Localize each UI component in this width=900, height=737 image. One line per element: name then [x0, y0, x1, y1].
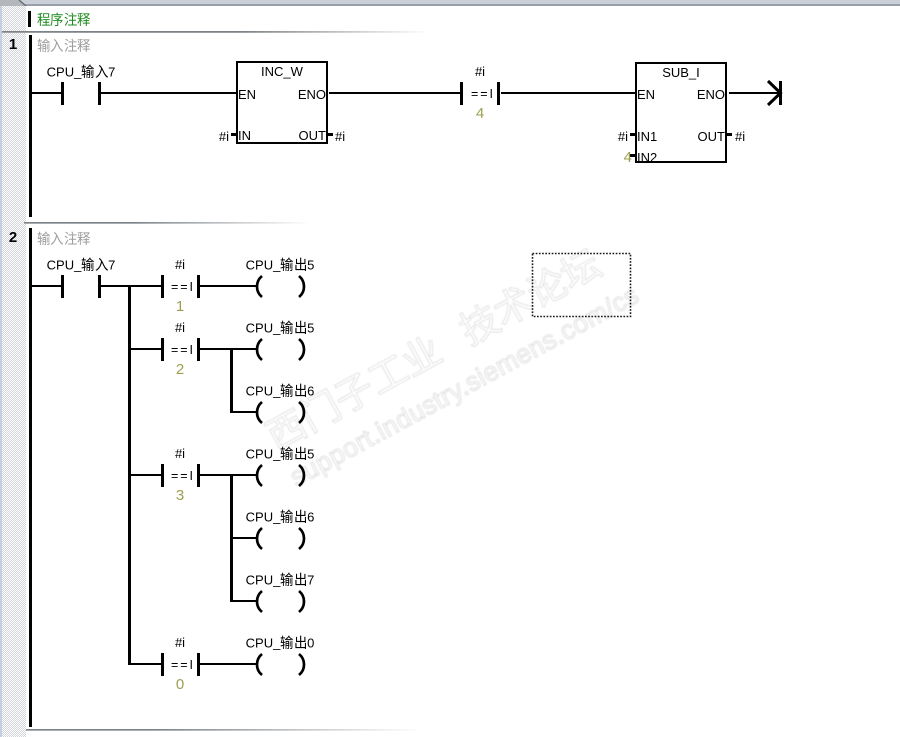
wire comparator to coil row7 — [200, 663, 256, 665]
wire comparator to coil row2 — [200, 348, 256, 350]
coil CPU_输出5 (row1) — [250, 272, 310, 302]
wire comparator to SUB_I — [501, 92, 635, 94]
label CPU_输出7 (row6) — [230, 572, 330, 588]
wire comparator to coil row4 — [200, 474, 256, 476]
branch stub to comparator row7 — [131, 663, 161, 665]
power rail net1 — [29, 35, 32, 217]
wire rail to contact (net1) — [32, 92, 61, 94]
branch stub to comparator row4 — [131, 474, 161, 476]
pin IN2 — [637, 150, 657, 165]
operand #i at OUT — [335, 129, 345, 144]
operand #i at IN1 — [598, 129, 628, 144]
open branch arrow — [766, 78, 788, 108]
pin OUT — [282, 128, 326, 143]
label CPU_输出5 (row1) — [230, 257, 330, 273]
label CPU_输出6 (row3) — [230, 383, 330, 399]
wire contact to INC_W box — [101, 92, 236, 94]
coil CPU_输出6 (row5) — [250, 524, 310, 554]
top toolbar strip — [0, 0, 900, 4]
label CPU_输出5 (row2) — [230, 320, 330, 336]
coil CPU_输出5 (row4) — [250, 461, 310, 491]
title: 程序注释 — [37, 12, 117, 28]
operand #i at IN — [199, 129, 229, 144]
coil CPU_输出7 (row6) — [250, 587, 310, 617]
function block INC_W — [236, 61, 328, 144]
comparator ==I value 0 (row7) — [161, 653, 164, 676]
main branch vertical — [128, 285, 131, 665]
comparator ==I value 2 (row2) — [161, 338, 164, 361]
power rail net2 — [29, 228, 32, 727]
empty selection box (dotted) — [531, 252, 632, 318]
pin EN — [637, 87, 655, 102]
comparator ==I value 3 (row4) — [161, 464, 164, 487]
pin OUT — [681, 129, 725, 144]
IN2 pin tick — [630, 154, 635, 157]
function block SUB_I — [635, 62, 727, 163]
branch stub to comparator row2 — [131, 348, 161, 350]
bottom separator — [26, 729, 426, 730]
label CPU_输出5 (row4) — [230, 446, 330, 462]
watermark line 2: support.industry.siemens.com/cs — [285, 279, 644, 492]
wire comparator to coil row1 — [200, 285, 256, 287]
operand 4 at IN2 — [602, 150, 632, 165]
INC_W title — [236, 64, 328, 79]
sub-branch vertical rows 2-3 — [230, 348, 233, 413]
wire SUB_I to open branch arrow — [729, 92, 779, 94]
wire contact to comparator row1 — [101, 285, 161, 287]
pin ENO — [282, 87, 326, 102]
sub-branch stub to coil row5 — [230, 537, 256, 539]
left window edge — [0, 6, 2, 737]
wire INC_W to comparator — [329, 92, 460, 94]
coil CPU_输出0 (row7) — [250, 650, 310, 680]
IN1 pin tick — [630, 133, 635, 136]
contact CPU_输入7 (net2) — [61, 275, 64, 298]
OUT pin tick — [727, 133, 732, 136]
left gutter (network margin) — [0, 6, 26, 737]
sub-branch stub to coil row3 — [230, 411, 256, 413]
pin EN — [238, 87, 256, 102]
comparator ==I value 4 (net1) — [460, 82, 463, 105]
pin ENO — [681, 87, 725, 102]
separator between network 1 and 2 — [24, 222, 314, 223]
label CPU_输入7 (net1) — [31, 64, 131, 80]
label CPU_输出0 (row7) — [230, 635, 330, 651]
network number 1 — [0, 36, 26, 53]
contact CPU_输入7 (net1) — [61, 82, 64, 105]
OUT pin tick — [328, 133, 333, 136]
IN pin tick — [231, 133, 236, 136]
sub-branch vertical rows 4-6 — [230, 474, 233, 602]
watermark line 1: 西门子工业 技术论坛 — [260, 243, 606, 455]
comparator ==I value 1 (row1) — [161, 275, 164, 298]
title comment marker bar — [28, 11, 31, 27]
coil CPU_输出6 (row3) — [250, 398, 310, 428]
network 1 comment: 输入注释 — [37, 38, 117, 54]
coil CPU_输出5 (row2) — [250, 335, 310, 365]
pin IN1 — [637, 129, 657, 144]
wire rail to contact (net2) — [32, 285, 61, 287]
pin IN — [238, 128, 251, 143]
separator under title — [2, 31, 432, 32]
sub-branch stub to coil row6 — [230, 600, 256, 602]
SUB_I title — [635, 65, 727, 80]
network 2 comment: 输入注释 — [37, 231, 117, 247]
label CPU_输入7 (net2) — [31, 257, 131, 273]
network number 2 — [0, 229, 26, 246]
label CPU_输出6 (row5) — [230, 509, 330, 525]
operand #i at OUT — [735, 129, 745, 144]
